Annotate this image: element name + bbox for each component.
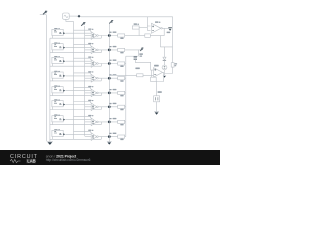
source S7 label (54, 114, 57, 115)
wire noninverting feed (109, 74, 153, 76)
wire op-amp output (98, 49, 118, 51)
wire op-amp supply stub (74, 45, 91, 47)
op-amp U6 label (88, 100, 91, 101)
resistor R6 (118, 105, 125, 108)
wire feedback (100, 50, 102, 53)
resistor R6 label (113, 103, 117, 104)
resistor R8 value label (120, 139, 123, 141)
wire feedback (100, 137, 102, 140)
ground left (47, 140, 53, 142)
wire load top (160, 17, 172, 63)
resistor R9 label (134, 23, 137, 25)
wire V1 signal to mixer stage (81, 16, 173, 18)
wire op-amp supply stub (74, 58, 91, 60)
wire op-amp output (98, 121, 118, 123)
wire op-amp supply stub (74, 117, 91, 119)
wire source output (66, 60, 92, 62)
wire C2 to ground (154, 102, 159, 112)
resistor R6 value label (120, 109, 123, 111)
resistor R5 label (113, 89, 117, 90)
wire row1 riser (138, 28, 140, 36)
op-amp U2 (91, 46, 97, 54)
wire inverting input stub (85, 136, 92, 138)
wire summing jog (126, 55, 139, 57)
source V3 (162, 65, 167, 70)
capacitor C1 (134, 55, 136, 58)
op-amp U4 label (88, 71, 91, 72)
wire to summing bus (125, 77, 126, 79)
source box S2 (52, 44, 63, 50)
wire source return (50, 107, 101, 110)
wire bus column B1 (73, 21, 75, 139)
wire inverting input stub (85, 106, 92, 108)
source box S6 (52, 101, 63, 107)
source box S4 (52, 72, 63, 78)
resistor R1 (118, 34, 125, 37)
wire source output (66, 47, 92, 49)
node VIN flag (43, 11, 47, 14)
node flag V1 output (78, 15, 81, 18)
node flag summing bus (108, 23, 110, 36)
source S3 label (54, 56, 57, 57)
source box S7 (52, 116, 63, 122)
wire (40, 14, 47, 16)
source box S1 (52, 29, 63, 35)
op-amp U9 (152, 23, 161, 33)
wire op-amp output (98, 35, 118, 37)
wire op-amp supply stub (74, 30, 91, 32)
op-amp U3 (91, 60, 97, 68)
wire source return (50, 122, 101, 125)
wire op-amp supply stub (74, 131, 91, 133)
ground load (163, 74, 166, 76)
wire source return (50, 137, 101, 140)
source S2 label (54, 42, 57, 43)
resistor R10 (145, 34, 151, 37)
diode D1 (163, 47, 165, 57)
resistor R4 value label (120, 80, 123, 82)
node N7 (108, 121, 111, 124)
capacitor C1 label (139, 53, 143, 55)
op-amp U6 (91, 103, 97, 111)
voltage function generator V1 (63, 13, 70, 19)
wire load bottom (165, 67, 173, 73)
op-amp U1 (91, 32, 97, 40)
wire (164, 70, 166, 74)
wire node bus (108, 36, 110, 137)
resistor R9 (132, 26, 139, 29)
wire ground bus A (45, 15, 47, 142)
wire source output (66, 104, 92, 106)
op-amp U9 label (155, 21, 158, 23)
wire drop to load (159, 36, 161, 47)
wire inverting input stub (85, 35, 92, 37)
wire op-amp output (98, 63, 118, 65)
node N8 (108, 135, 111, 138)
resistor R5 value label (120, 95, 123, 97)
wire inverting input stub (85, 92, 92, 94)
resistor R7 value label (120, 124, 123, 126)
wire R9 to op-amp U9 (139, 27, 147, 29)
wire V1 output (69, 15, 78, 17)
wire feedback (100, 93, 102, 96)
resistor R4 label (113, 74, 117, 75)
capacitor C2 (154, 96, 160, 102)
resistor R3 (118, 62, 125, 65)
wire bus column B2 (84, 26, 86, 136)
wire inverting input stub (85, 49, 92, 51)
op-amp U8 (91, 133, 97, 141)
node N2 (108, 49, 111, 52)
wire op-amp supply stub (74, 102, 91, 104)
wire U9 feedback (139, 28, 164, 35)
wire source return (50, 50, 101, 53)
resistor R12 (151, 77, 157, 81)
wire to summing bus (125, 106, 126, 108)
wire to summing bus (125, 121, 126, 123)
svg-text:http://circuitlab.com/c/2mmsuv: http://circuitlab.com/c/2mmsuv6 (46, 158, 91, 162)
resistor R3 value label (120, 66, 123, 68)
wire summing bus lower (rows 3-8) (125, 56, 127, 136)
node OUT flag (168, 27, 172, 29)
wire to summing bus (125, 35, 139, 37)
wire to C2 (156, 82, 158, 96)
wire to summing bus (125, 63, 126, 65)
resistor R2 value label (120, 52, 123, 54)
resistor R1 label (113, 32, 117, 33)
op-amp U5 label (88, 86, 91, 87)
node N5 (108, 92, 111, 95)
svg-text:LAB: LAB (27, 159, 35, 164)
resistor R11 (137, 74, 143, 77)
resistor R7 (118, 120, 125, 123)
wire V1 bottom pin (66, 19, 74, 21)
wire source output (66, 32, 92, 34)
source S6 label (54, 99, 57, 100)
wire noninverting input from V1 (147, 17, 150, 31)
node N1 (108, 34, 111, 37)
wire feedback (100, 107, 102, 110)
source box S5 (52, 87, 63, 93)
wire return bus (49, 38, 51, 141)
wire op-amp supply stub (74, 73, 91, 75)
resistor RL (171, 63, 174, 67)
wire to summing bus (125, 92, 126, 94)
wire source output (66, 75, 92, 77)
node flag sum (140, 48, 143, 51)
ground node bus (107, 137, 112, 142)
ground C2 (155, 112, 159, 114)
op-amp U5 (91, 89, 97, 97)
resistor R8 (118, 135, 125, 138)
source S8 label (54, 129, 57, 130)
resistor R5 (118, 91, 125, 94)
resistor RL label (175, 63, 178, 64)
wire U10 feedback (152, 70, 164, 81)
wire op-amp output (98, 136, 118, 138)
wire inverting input stub (85, 121, 92, 123)
wire to summing bus (125, 49, 141, 51)
node flag bus B2 (81, 23, 85, 26)
resistor R8 label (113, 133, 117, 134)
source box S3 (52, 57, 63, 63)
wire feedback (100, 64, 102, 67)
wire op-amp output (98, 92, 118, 94)
wire to summing bus (125, 136, 126, 138)
wire (163, 60, 165, 65)
op-amp U4 (91, 74, 97, 82)
wire inverting input stub (85, 63, 92, 65)
wire source return (50, 78, 101, 81)
wire source output (66, 133, 92, 135)
wire feedback (100, 122, 102, 125)
op-amp U10 label (154, 65, 159, 67)
op-amp U1 label (88, 29, 91, 30)
resistor R7 label (113, 118, 117, 119)
source box S8 (52, 130, 63, 136)
resistor R3 label (113, 60, 117, 61)
wire source output (66, 119, 92, 121)
node N3 (108, 62, 111, 65)
wire inverting input stub (85, 77, 92, 79)
op-amp U2 label (88, 43, 91, 44)
wire op-amp output (98, 77, 118, 79)
op-amp U8 label (88, 130, 91, 131)
resistor R4 (118, 77, 125, 80)
wire source return (50, 64, 101, 67)
wire op-amp supply stub (74, 88, 91, 90)
wire cap to U10 inverting input (135, 59, 153, 70)
wire row2 tap down (137, 50, 139, 56)
node N4 (108, 77, 111, 80)
node N6 (108, 105, 111, 108)
footer bar (0, 150, 220, 165)
resistor R2 label (113, 46, 117, 47)
resistor R2 (118, 48, 125, 51)
op-amp U7 label (88, 115, 91, 116)
wire source return (50, 36, 101, 39)
source S5 label (54, 85, 57, 86)
wire feedback (100, 78, 102, 81)
op-amp U3 label (88, 57, 91, 58)
resistor R11 label (135, 68, 139, 70)
resistor R1 value label (120, 38, 123, 40)
wire U9 output (162, 27, 169, 29)
wire source output (66, 90, 92, 92)
source S4 label (54, 71, 57, 72)
source S1 label (54, 28, 57, 29)
op-amp U10 (154, 68, 163, 78)
wire feedback (100, 36, 102, 39)
capacitor C2 label (158, 91, 162, 93)
wire op-amp output (98, 106, 118, 108)
wire source return (50, 93, 101, 96)
op-amp U7 (91, 118, 97, 126)
